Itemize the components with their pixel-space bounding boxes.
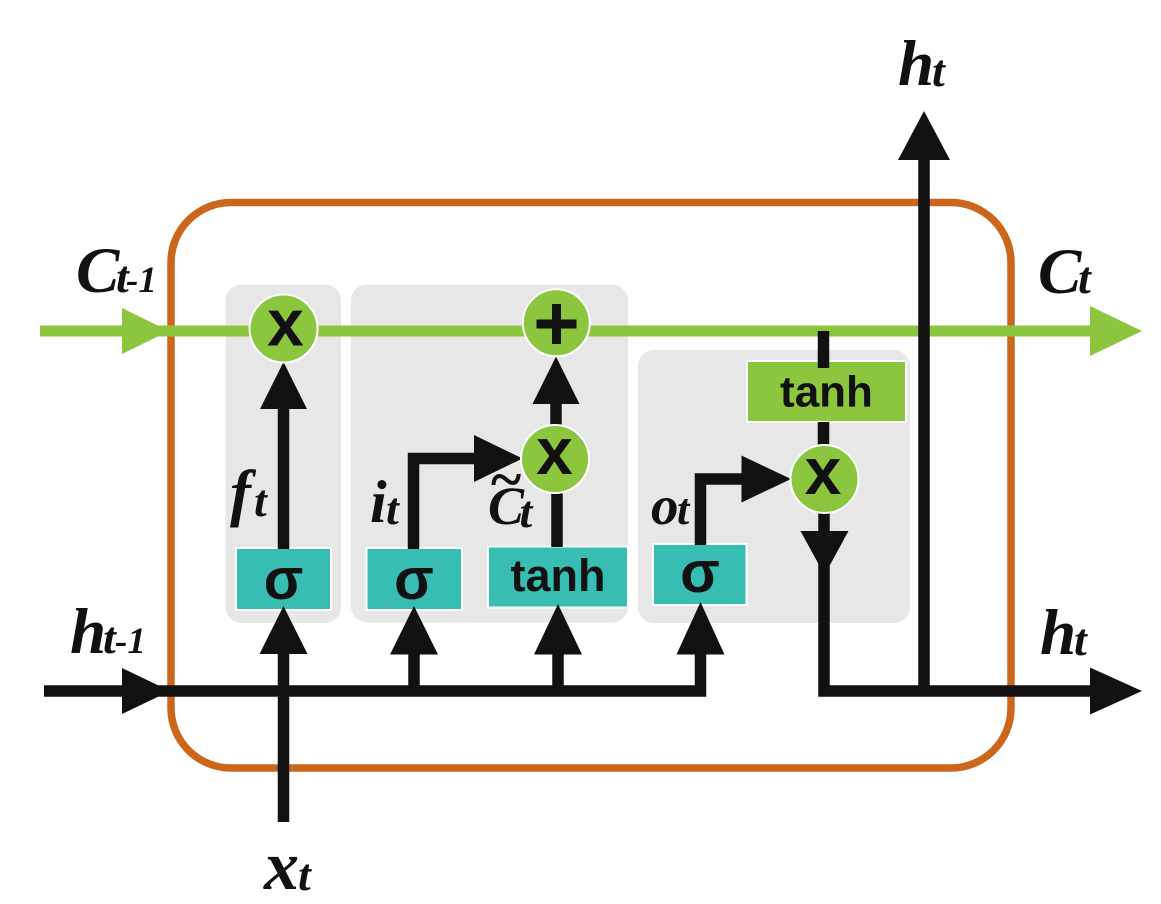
node: multiply circle X3 (output) [791, 445, 859, 513]
svg-text:x: x [536, 414, 573, 488]
arrowhead: riser into tanh box [534, 604, 582, 655]
svg-text:t: t [1074, 614, 1088, 665]
node: multiply circle X1 (forget) [250, 295, 318, 363]
wire: o(t) elbow from sigma3 to X3 [701, 479, 742, 545]
wire: X2 up to plus circle [550, 401, 562, 427]
svg-text:x: x [263, 828, 299, 904]
plus symbol [537, 320, 577, 329]
wire: riser into tanh (teal) [552, 652, 564, 696]
cell boundary (orange rounded rectangle) [171, 203, 1011, 769]
svg-text:t: t [520, 486, 534, 537]
svg-text:h: h [898, 28, 934, 100]
svg-text:~: ~ [489, 447, 522, 512]
svg-text:h: h [1040, 597, 1076, 669]
svg-text:t: t [386, 483, 400, 534]
svg-text:t: t [677, 485, 691, 534]
green tanh box [747, 361, 906, 422]
svg-text:t: t [298, 849, 312, 900]
svg-text:h: h [70, 596, 106, 668]
sigma box 3 (output gate) [653, 544, 747, 605]
sigma box 2 (input gate) [367, 548, 463, 610]
gate panel 1 (forget gate background) [226, 285, 342, 624]
gate panel 3 (output gate background) [638, 350, 910, 623]
svg-text:x: x [267, 286, 304, 360]
wire: sigma1 up to multiply circle X1 [278, 406, 290, 549]
wire: X3 down then right to h(t) output [824, 511, 1092, 691]
tanh box (candidate, teal) [488, 547, 628, 608]
svg-text:t: t [1078, 252, 1092, 303]
wire: green tanh box down to X3 circle [818, 422, 830, 447]
arrowhead: h(t-1) input (black, right-pointing) [122, 668, 170, 714]
svg-text:x: x [805, 434, 842, 508]
arrowhead: x(t) riser into sigma1 [260, 606, 308, 654]
wire: h(t) vertical up and out of cell [918, 158, 930, 696]
arrowhead: into X1 [260, 362, 307, 409]
svg-text:t: t [254, 475, 268, 526]
svg-text:tanh: tanh [780, 368, 873, 417]
wire: riser into sigma2 [408, 652, 420, 696]
arrowhead: into X3 (right-pointing) [742, 456, 792, 503]
arrowhead: C(t-1) input (green, right-pointing) [122, 308, 169, 354]
arrowhead: C(t) output (green, right-pointing) [1090, 306, 1142, 356]
wire: branch from C line down over green tanh box top [818, 331, 830, 368]
arrowhead: h(t) output right [1090, 668, 1142, 715]
svg-text:t: t [932, 45, 946, 96]
arrowhead: into X2 (right-pointing) [474, 435, 523, 482]
wire: h(t-1) bottom line into cell, ends turning up into sigma3 [44, 652, 701, 691]
wire: i(t) elbow from sigma2 to X2 [414, 459, 475, 550]
arrowhead: riser into sigma3 [677, 602, 725, 655]
node: multiply circle X2 (input) [521, 425, 589, 493]
arrowhead: mid-line down arrow below X3 [801, 531, 849, 575]
svg-text:tanh: tanh [511, 550, 606, 601]
svg-text:C: C [76, 235, 120, 307]
svg-text:-1: -1 [126, 260, 157, 301]
wire: tanh box up to X2 circle [551, 492, 563, 547]
arrowhead: riser into sigma2 [390, 606, 438, 655]
arrowhead: into plus circle [533, 357, 580, 405]
arrowhead: h(t) top [898, 111, 950, 160]
svg-text:i: i [370, 469, 387, 535]
sigma box 1 (forget gate) [236, 548, 331, 610]
svg-text:-1: -1 [115, 621, 146, 662]
node: plus circle [523, 289, 590, 356]
wire: x(t) vertical input line through bottom line up to sigma1 [278, 652, 290, 822]
gate panel 2 (input gate background) [351, 285, 628, 623]
svg-text:σ: σ [394, 547, 434, 612]
wire: cell state line C (green horizontal) [40, 326, 1092, 337]
svg-text:σ: σ [680, 540, 720, 605]
svg-text:σ: σ [264, 547, 304, 612]
svg-text:o: o [651, 475, 679, 536]
svg-text:C: C [1038, 236, 1082, 308]
